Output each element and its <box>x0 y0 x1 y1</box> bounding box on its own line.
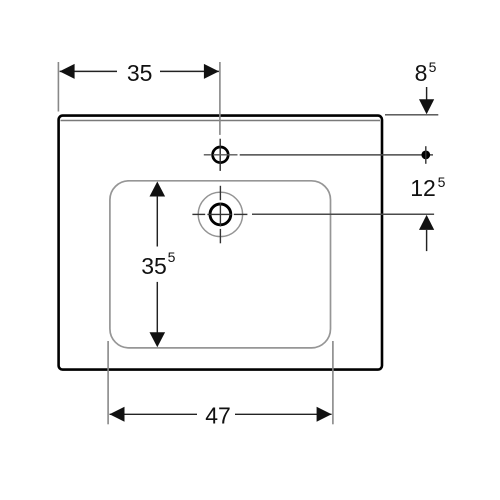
svg-text:12: 12 <box>410 175 436 201</box>
svg-text:5: 5 <box>438 174 446 190</box>
svg-text:8: 8 <box>415 60 428 86</box>
svg-text:5: 5 <box>429 59 437 75</box>
svg-text:47: 47 <box>205 402 231 428</box>
svg-text:35: 35 <box>127 60 153 86</box>
svg-text:35: 35 <box>141 253 167 279</box>
svg-text:5: 5 <box>168 249 176 265</box>
